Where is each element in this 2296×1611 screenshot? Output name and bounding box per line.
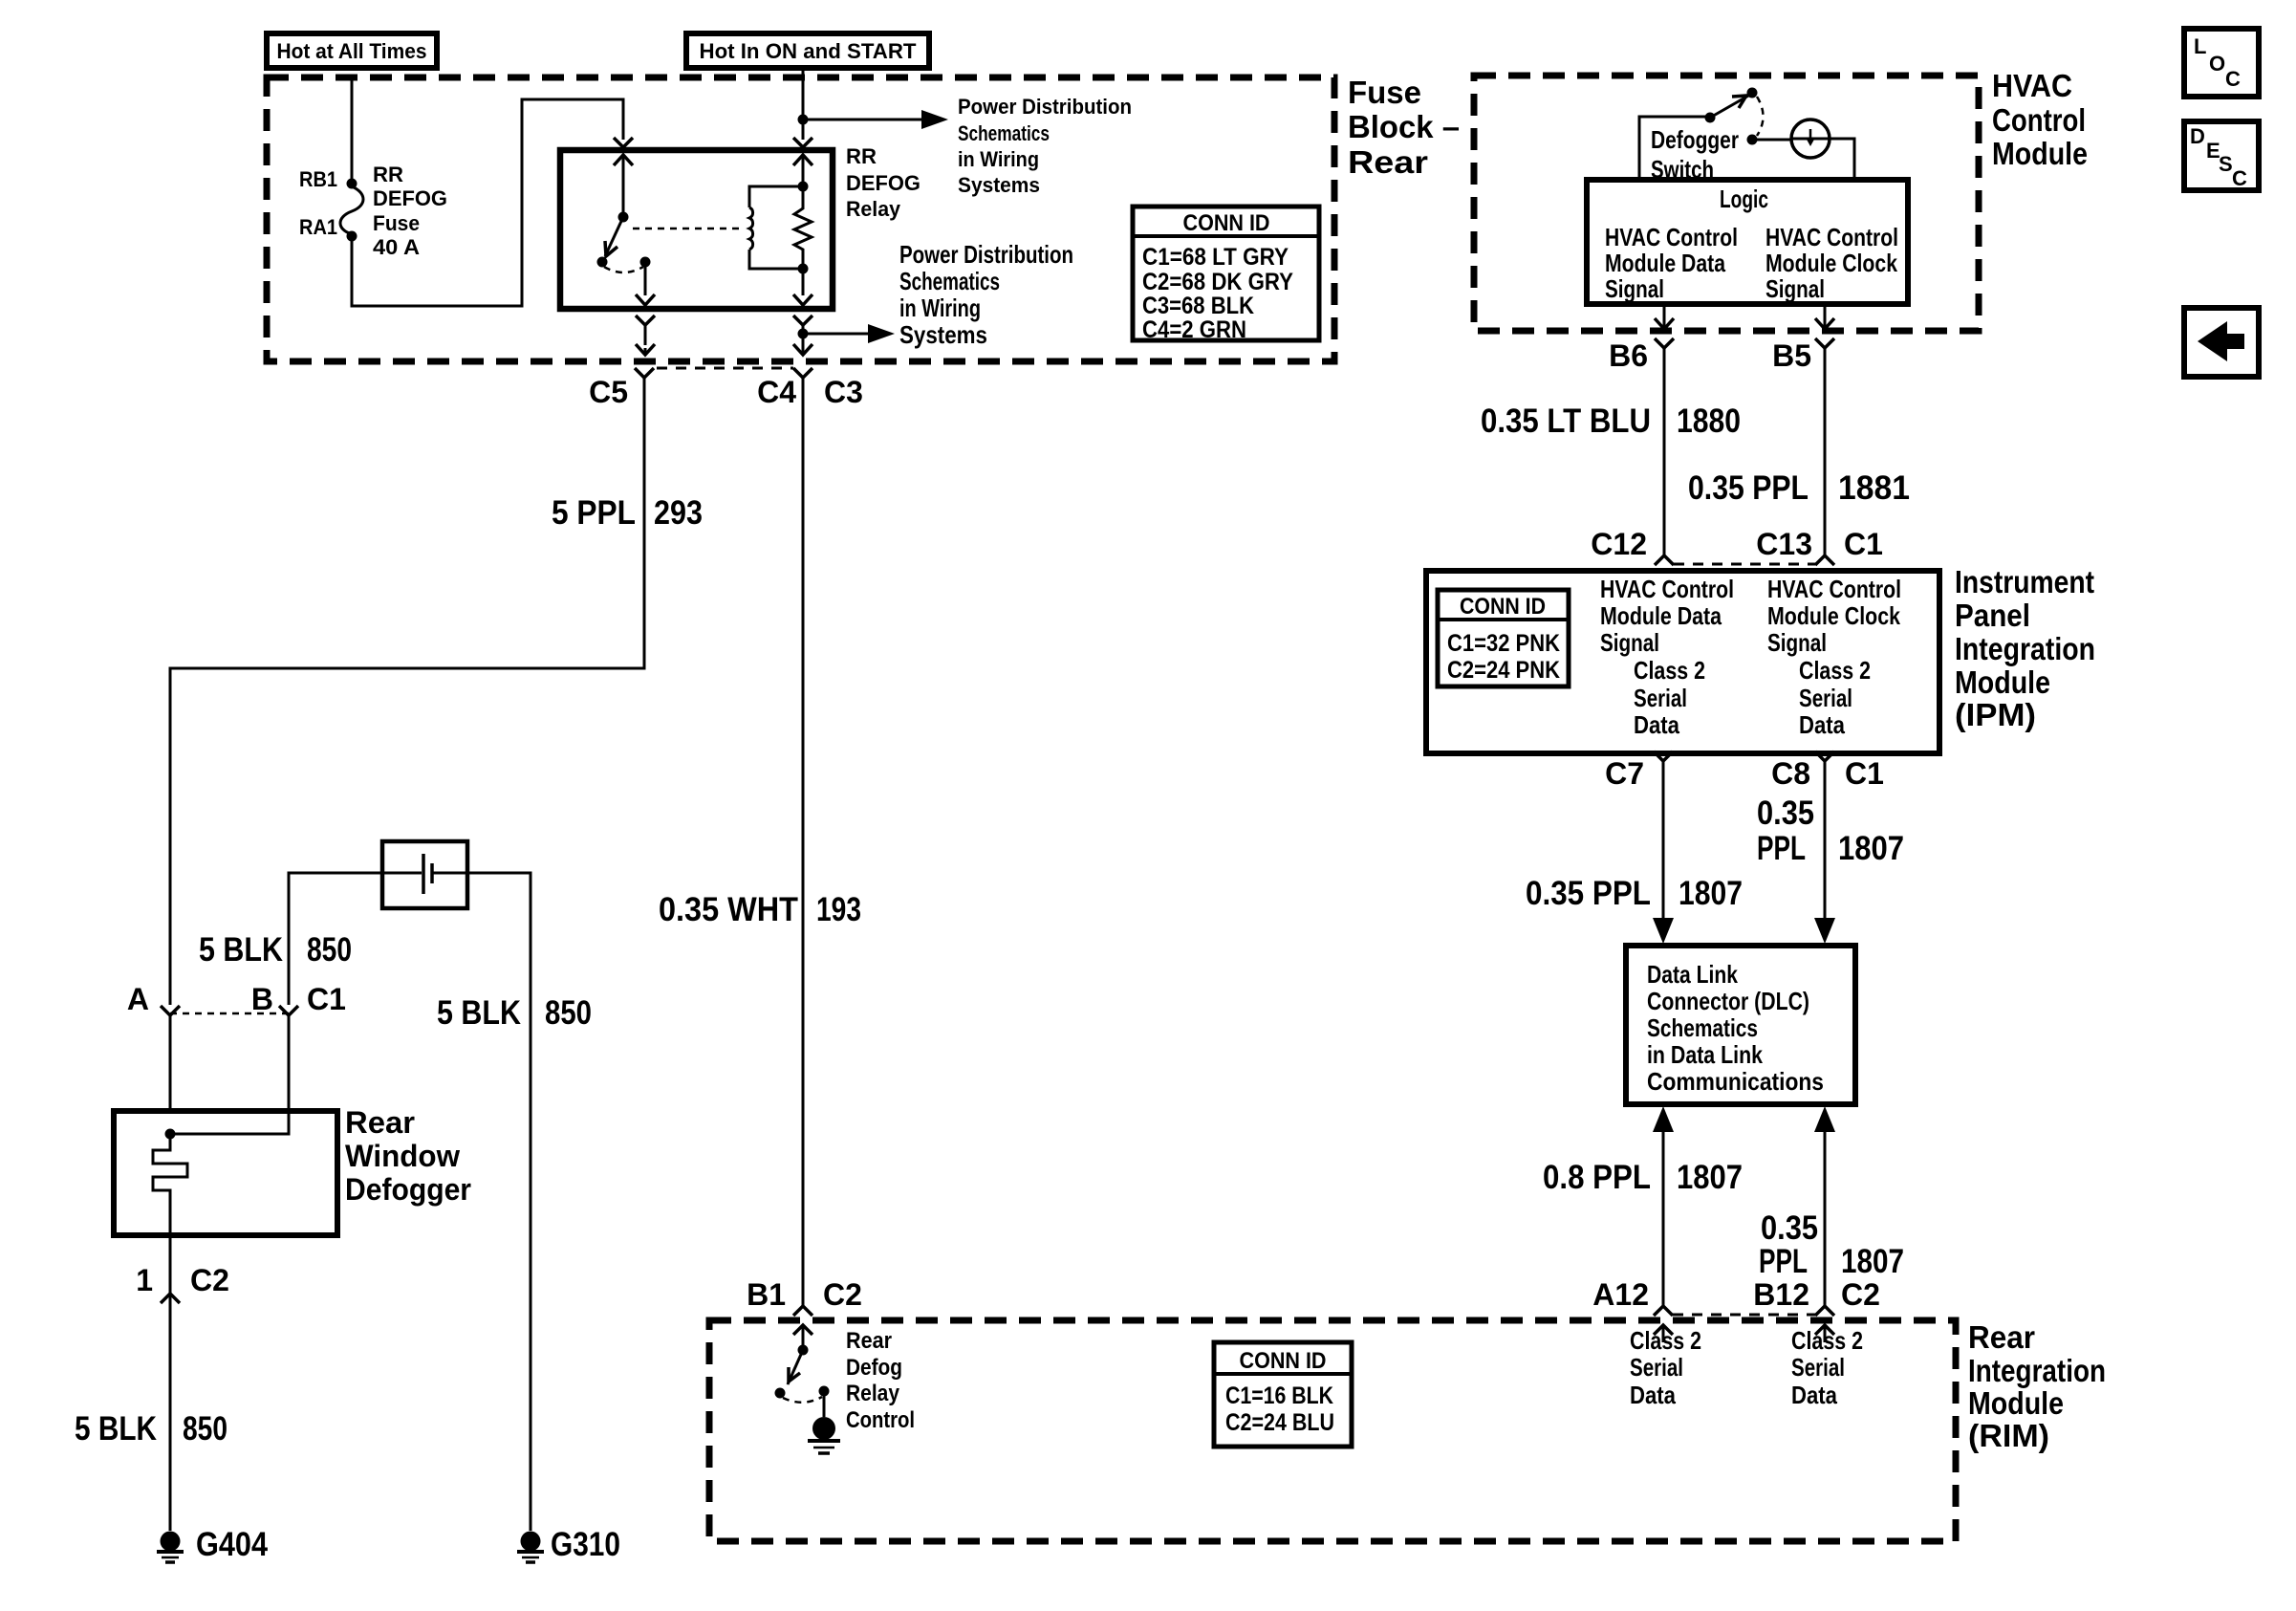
svg-text:Module Clock: Module Clock (1767, 601, 1900, 630)
inline connector C1 cavity B (279, 1006, 298, 1111)
arrowhead out of DLC (right, pointing up) (1814, 1106, 1835, 1306)
svg-text:HVAC Control: HVAC Control (1765, 223, 1898, 251)
svg-text:5 BLK: 5 BLK (75, 1410, 157, 1448)
svg-text:1807: 1807 (1679, 875, 1743, 912)
svg-text:850: 850 (307, 931, 352, 969)
svg-text:Module Data: Module Data (1605, 249, 1725, 277)
svg-text:C2: C2 (823, 1277, 862, 1312)
CONN ID table (fuse block) (1133, 207, 1319, 343)
wire: capacitor left to connector B (289, 873, 384, 1005)
svg-text:PPL: PPL (1757, 830, 1806, 867)
rear window defogger box (114, 1111, 337, 1235)
label: Data Link Connector (DLC) Schematics in Data Link Communications (1647, 960, 1824, 1096)
IPM exit C8 fork (1815, 751, 1834, 920)
label: RR DEFOG Relay (846, 144, 921, 221)
svg-text:RR: RR (373, 163, 403, 186)
section label: Rear Integration Module (RIM) (1968, 1319, 2106, 1453)
svg-text:HVAC: HVAC (1992, 68, 2072, 103)
svg-text:Serial: Serial (1799, 684, 1852, 712)
svg-text:Module: Module (1992, 136, 2088, 171)
svg-text:Rear: Rear (1968, 1319, 2035, 1355)
svg-text:C1=32 PNK: C1=32 PNK (1447, 630, 1560, 657)
svg-text:C1: C1 (307, 982, 346, 1016)
svg-text:Class 2: Class 2 (1799, 656, 1871, 685)
svg-text:Signal: Signal (1605, 274, 1664, 303)
svg-text:Fuse: Fuse (1348, 75, 1421, 110)
wire: defogger to pin 1 connector (169, 1235, 172, 1313)
wire label: 5 BLK 850 (G404 wire) (75, 1410, 227, 1448)
svg-text:1881: 1881 (1838, 469, 1910, 507)
svg-text:5 BLK: 5 BLK (437, 994, 521, 1032)
svg-text:D: D (2190, 124, 2205, 148)
rear defog relay control switch (775, 1345, 830, 1403)
svg-text:Defogger: Defogger (1651, 125, 1739, 154)
wire: pin 1 to G404 (169, 1313, 172, 1531)
svg-text:Module: Module (1955, 664, 2050, 700)
svg-text:Data: Data (1634, 710, 1679, 739)
wire: B5 to C13 (0.35 PPL 1881) (1824, 372, 1827, 555)
relay switch arm (inside, left) (597, 155, 656, 305)
relay left exit: fork below box (636, 316, 655, 355)
svg-text:A: A (127, 982, 149, 1016)
relay right exit: fork, junction, arrow to Systems text (793, 316, 895, 355)
ground G404 (157, 1532, 184, 1563)
connector C13/C1 into IPM (fork) (1815, 555, 1834, 565)
svg-text:L: L (2194, 34, 2206, 58)
connector C12 into IPM (fork) (1655, 555, 1674, 565)
svg-text:850: 850 (183, 1410, 227, 1448)
svg-text:Defogger: Defogger (345, 1172, 471, 1207)
label: HVAC Control Module Data Signal (IPM) (1600, 575, 1734, 657)
connector C4/C3 below fuse block (793, 368, 812, 402)
svg-text:B6: B6 (1609, 338, 1648, 373)
svg-text:Control: Control (846, 1407, 915, 1433)
svg-text:G310: G310 (551, 1526, 620, 1563)
defogger internal junction (165, 1111, 290, 1140)
label: HVAC Control Module Data Signal (1605, 223, 1738, 303)
svg-text:Hot In ON and START: Hot In ON and START (700, 39, 918, 63)
svg-text:C3=68 BLK: C3=68 BLK (1142, 293, 1254, 319)
fuse block dashed border (267, 77, 1334, 361)
label: Class 2 Serial Data (IPM left) (1634, 656, 1705, 739)
svg-text:Relay: Relay (846, 1381, 900, 1406)
label: HVAC Control Module Clock Signal (IPM) (1767, 575, 1901, 657)
label: Rear Defog Relay Control (846, 1328, 915, 1433)
svg-text:5 PPL: 5 PPL (552, 494, 636, 532)
svg-text:B1: B1 (747, 1277, 786, 1312)
svg-text:B12: B12 (1753, 1277, 1809, 1312)
svg-text:C4: C4 (757, 375, 796, 409)
svg-text:Data Link: Data Link (1647, 960, 1738, 989)
HVAC exit B5: arrow + fork (1815, 304, 1834, 372)
svg-text:Instrument: Instrument (1955, 564, 2094, 599)
svg-text:Rear: Rear (1348, 144, 1428, 180)
wire: capacitor right to G310 (466, 873, 531, 1531)
svg-text:G404: G404 (196, 1526, 268, 1563)
label: Rear Window Defogger (345, 1105, 471, 1207)
label: Class 2 Serial Data (RIM right) (1791, 1326, 1863, 1409)
wire label: 5 BLK 850 (G310 wire) (437, 994, 592, 1032)
wire label: 5 PPL 293 (552, 494, 703, 532)
svg-text:C1: C1 (1845, 756, 1884, 791)
capacitor (noise suppressor) box (382, 841, 467, 908)
connector B1/C2 into RIM (fork above border) (793, 1301, 812, 1316)
svg-text:C3: C3 (824, 375, 863, 409)
IPM exit C7 fork (1654, 751, 1673, 920)
wire: C5 to rear window defogger (5 PPL) (170, 402, 644, 1005)
svg-text:CONN ID: CONN ID (1240, 1348, 1327, 1374)
svg-text:Power Distribution: Power Distribution (958, 95, 1132, 119)
svg-text:1807: 1807 (1838, 830, 1904, 867)
svg-text:C2=24 BLU: C2=24 BLU (1225, 1409, 1334, 1436)
rear integration module dashed border (709, 1320, 1956, 1541)
arrowhead into DLC (left) (1653, 918, 1674, 944)
svg-text:Data: Data (1791, 1381, 1837, 1409)
wire label: 0.8 PPL 1807 (1543, 1159, 1743, 1196)
svg-text:Module Clock: Module Clock (1765, 249, 1897, 277)
wire: B6 to C12 (0.35 LT BLU 1880) (1663, 372, 1666, 555)
svg-text:CONN ID: CONN ID (1183, 210, 1270, 236)
section label: Fuse Block - Rear (1348, 75, 1460, 180)
svg-text:HVAC Control: HVAC Control (1767, 575, 1901, 603)
svg-text:C: C (2225, 67, 2241, 91)
svg-text:Data: Data (1799, 710, 1845, 739)
svg-text:Module: Module (1968, 1385, 2064, 1421)
power label box: Hot at All Times (267, 33, 437, 68)
back arrow box (2184, 308, 2259, 377)
svg-text:S: S (2219, 152, 2233, 176)
svg-text:Power Distribution: Power Distribution (899, 240, 1073, 269)
svg-text:(RIM): (RIM) (1968, 1418, 2049, 1453)
wire label: 0.35 PPL 1807 (B12 wire) (1759, 1209, 1904, 1280)
svg-text:C12: C12 (1591, 527, 1647, 561)
data link connector box (1626, 946, 1855, 1104)
svg-text:Integration: Integration (1968, 1353, 2106, 1388)
text block: Power Distribution Schematics in Wiring Systems (bottom) (899, 240, 1073, 349)
svg-text:C2=24 PNK: C2=24 PNK (1447, 657, 1560, 684)
svg-text:Signal: Signal (1765, 274, 1825, 303)
arrow to Power Distribution Schematics (top) (808, 110, 948, 129)
HVAC logic box (1587, 180, 1908, 304)
connector dashed link A12-B12 (1673, 1314, 1815, 1317)
svg-text:(IPM): (IPM) (1955, 697, 2036, 732)
svg-text:Rear: Rear (846, 1328, 892, 1354)
svg-text:Class 2: Class 2 (1630, 1326, 1701, 1355)
svg-text:Systems: Systems (958, 173, 1040, 197)
svg-text:Fuse: Fuse (373, 211, 420, 235)
arrowhead out of DLC (left, pointing up) (1653, 1106, 1674, 1306)
svg-text:193: 193 (816, 891, 861, 928)
wire label: 0.35 WHT 193 (659, 891, 861, 928)
wire label: 5 BLK 850 (wire B) (199, 931, 352, 969)
svg-text:0.8 PPL: 0.8 PPL (1543, 1159, 1651, 1196)
svg-text:Window: Window (345, 1139, 460, 1173)
svg-text:C13: C13 (1756, 527, 1812, 561)
svg-text:C: C (2232, 166, 2247, 190)
RIM male pin arrow (A12) (1654, 1325, 1673, 1342)
wire label: 0.35 PPL 1807 (C8 wire) (1757, 795, 1904, 867)
ground inside RIM (808, 1391, 840, 1453)
RIM male pin arrow (B12) (1815, 1325, 1834, 1342)
connector C5 below fuse block (635, 368, 654, 402)
ground G310 (517, 1532, 544, 1563)
relay box RR DEFOG Relay (560, 150, 833, 309)
junction node on ignition feed (798, 115, 809, 125)
svg-text:Panel: Panel (1955, 598, 2030, 633)
svg-text:A12: A12 (1592, 1277, 1649, 1312)
svg-text:C1: C1 (1844, 527, 1883, 561)
label: RR DEFOG Fuse 40 A (373, 163, 447, 259)
svg-text:Connector (DLC): Connector (DLC) (1647, 987, 1809, 1015)
svg-text:Hot at All Times: Hot at All Times (277, 39, 427, 63)
connector dashed link C12-C13 (1674, 563, 1815, 566)
wire label: 0.35 PPL 1807 (C7 wire) (1526, 875, 1743, 912)
svg-text:Signal: Signal (1767, 628, 1827, 657)
svg-text:0.35: 0.35 (1757, 795, 1814, 832)
svg-text:CONN ID: CONN ID (1460, 594, 1546, 620)
svg-text:in Wiring: in Wiring (899, 294, 981, 322)
arrowhead into DLC (right) (1814, 918, 1835, 944)
svg-text:in Data Link: in Data Link (1647, 1040, 1763, 1069)
DESC reference box (2184, 121, 2259, 190)
relay linkage (dashed) (633, 228, 742, 230)
svg-text:Schematics: Schematics (899, 267, 1000, 295)
fuse RR DEFOG 40 A (340, 179, 363, 242)
LOC reference box (2184, 29, 2259, 97)
RIM male pin arrow (B1) (793, 1325, 812, 1350)
svg-text:DEFOG: DEFOG (373, 186, 447, 210)
svg-text:C7: C7 (1605, 756, 1644, 791)
svg-text:C2: C2 (190, 1263, 229, 1297)
inline connector dashed link A-B (170, 1012, 289, 1015)
svg-text:Module Data: Module Data (1600, 601, 1722, 630)
svg-text:0.35 LT BLU: 0.35 LT BLU (1481, 403, 1651, 440)
svg-text:RR: RR (846, 144, 877, 168)
text block: Power Distribution Schematics in Wiring Systems (top) (958, 95, 1132, 197)
connector C2 pin 1 (chevron up) (161, 1294, 180, 1303)
svg-text:0.35 PPL: 0.35 PPL (1526, 875, 1651, 912)
defogger switch indicator (circle) (1791, 120, 1854, 180)
label: Class 2 Serial Data (IPM right) (1799, 656, 1871, 739)
connector fork into relay switch (left) (614, 138, 633, 147)
wire: fuse output to relay switch input (352, 99, 623, 306)
svg-text:850: 850 (545, 994, 592, 1032)
svg-text:1: 1 (136, 1263, 153, 1297)
svg-text:Class 2: Class 2 (1634, 656, 1705, 685)
svg-text:1880: 1880 (1677, 403, 1741, 440)
svg-text:C1=16 BLK: C1=16 BLK (1225, 1382, 1333, 1409)
connector fork into relay coil (right) (793, 138, 812, 147)
svg-text:0.35: 0.35 (1761, 1209, 1818, 1247)
svg-text:1807: 1807 (1841, 1243, 1904, 1280)
CONN ID table (IPM) (1438, 590, 1569, 686)
svg-text:O: O (2209, 52, 2225, 76)
svg-text:Integration: Integration (1955, 631, 2095, 666)
HVAC control module dashed border (1474, 76, 1979, 331)
svg-text:0.35 WHT: 0.35 WHT (659, 891, 798, 928)
svg-text:Control: Control (1992, 102, 2086, 138)
svg-text:Signal: Signal (1600, 628, 1659, 657)
label: Class 2 Serial Data (RIM left) (1630, 1326, 1701, 1409)
svg-text:C4=2 GRN: C4=2 GRN (1142, 316, 1246, 343)
svg-text:PPL: PPL (1759, 1243, 1808, 1280)
svg-text:Schematics: Schematics (958, 121, 1050, 145)
svg-text:in Wiring: in Wiring (958, 147, 1039, 171)
svg-text:B: B (251, 982, 273, 1016)
svg-text:Block –: Block – (1348, 109, 1460, 144)
svg-text:Rear: Rear (345, 1105, 415, 1140)
svg-text:Communications: Communications (1647, 1067, 1824, 1096)
svg-text:Logic: Logic (1720, 185, 1768, 213)
svg-text:Schematics: Schematics (1647, 1013, 1758, 1042)
svg-text:Serial: Serial (1634, 684, 1687, 712)
svg-text:C8: C8 (1771, 756, 1810, 791)
relay coil suppression resistor (793, 155, 812, 305)
connector-to-connector dashed link C5 to C4 (657, 367, 793, 370)
connector B12/C2 into RIM (fork above border) (1815, 1306, 1834, 1316)
svg-text:Serial: Serial (1791, 1353, 1845, 1382)
svg-text:RA1: RA1 (299, 215, 337, 239)
connector A12 into RIM (fork above border) (1654, 1306, 1673, 1316)
svg-text:40 A: 40 A (373, 235, 420, 259)
svg-text:5 BLK: 5 BLK (199, 931, 283, 969)
CONN ID table (RIM) (1214, 1342, 1352, 1447)
svg-text:Class 2: Class 2 (1791, 1326, 1863, 1355)
wire label: 0.35 PPL 1881 (1688, 469, 1910, 507)
svg-text:Systems: Systems (899, 320, 987, 349)
section label: Instrument Panel Integration Module (IPM) (1955, 564, 2095, 732)
svg-text:C5: C5 (589, 375, 628, 409)
svg-text:Serial: Serial (1630, 1353, 1683, 1382)
svg-text:DEFOG: DEFOG (846, 171, 921, 195)
svg-text:Data: Data (1630, 1381, 1676, 1409)
svg-text:RB1: RB1 (299, 167, 337, 191)
instrument panel integration module box (1426, 571, 1939, 753)
inline connector C1 cavity A (arrow + dashed) (161, 1006, 180, 1111)
svg-text:293: 293 (654, 494, 703, 532)
svg-text:B5: B5 (1772, 338, 1811, 373)
svg-text:Relay: Relay (846, 197, 901, 221)
svg-text:C1=68 LT GRY: C1=68 LT GRY (1142, 244, 1289, 271)
defogger grid element (153, 1134, 187, 1235)
svg-text:HVAC Control: HVAC Control (1605, 223, 1738, 251)
defogger switch (HVAC) (1639, 88, 1790, 181)
HVAC exit B6: arrow + fork (1655, 304, 1674, 372)
svg-text:C2=68 DK GRY: C2=68 DK GRY (1142, 269, 1293, 295)
svg-text:Defog: Defog (846, 1355, 902, 1381)
wire: battery feed to fuse (351, 77, 354, 179)
connector dashed link C7-C8 (1673, 751, 1815, 754)
svg-text:1807: 1807 (1677, 1159, 1743, 1196)
label: HVAC Control Module Clock Signal (1765, 223, 1898, 303)
wire label: 0.35 LT BLU 1880 (1481, 403, 1741, 440)
label: Defogger Switch (1651, 125, 1739, 184)
relay coil (749, 182, 809, 274)
wire: ignition feed from label box (802, 68, 805, 140)
wire: C3 to B1 (0.35 WHT) (802, 402, 805, 1301)
svg-text:C2: C2 (1841, 1277, 1880, 1312)
section label: HVAC Control Module (1992, 68, 2088, 171)
svg-text:0.35 PPL: 0.35 PPL (1688, 469, 1809, 507)
svg-text:HVAC Control: HVAC Control (1600, 575, 1734, 603)
power label box: Hot In ON and START (686, 33, 929, 68)
